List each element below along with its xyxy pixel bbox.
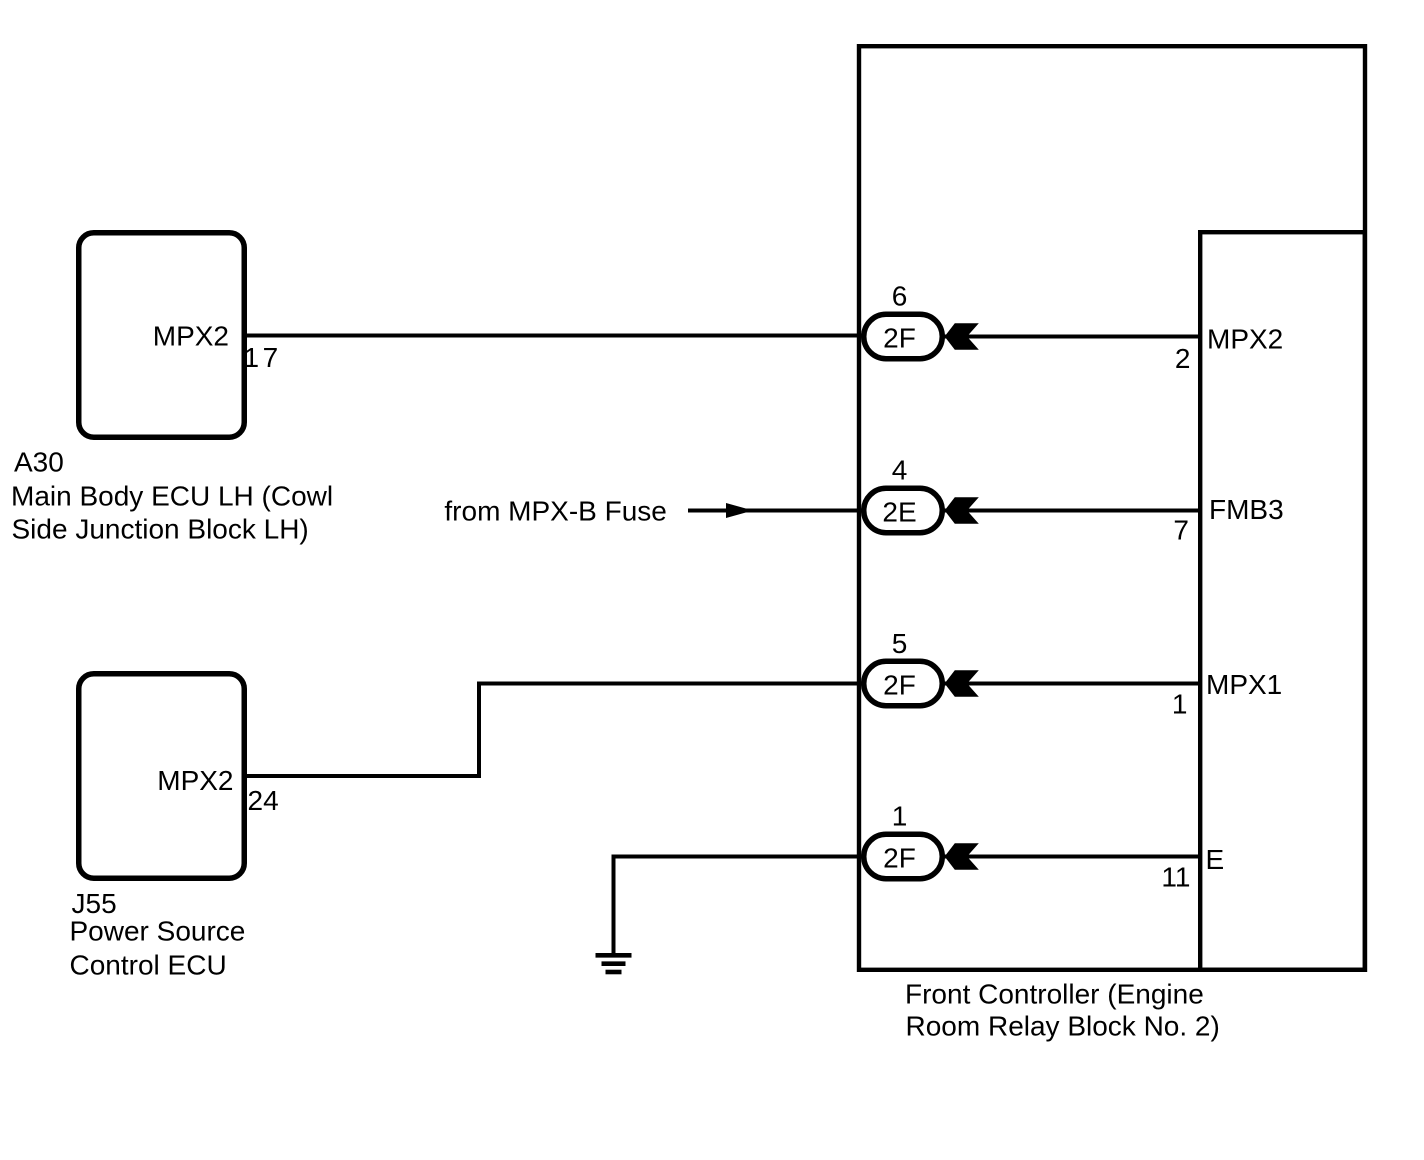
svg-text:Room Relay Block No. 2): Room Relay Block No. 2): [906, 1011, 1220, 1042]
svg-text:17: 17: [244, 342, 282, 373]
svg-text:FMB3: FMB3: [1209, 494, 1284, 525]
svg-text:MPX2: MPX2: [1207, 324, 1283, 355]
svg-text:4: 4: [892, 455, 908, 486]
svg-text:MPX2: MPX2: [157, 765, 233, 796]
svg-text:2: 2: [1175, 343, 1191, 374]
svg-text:Power Source: Power Source: [70, 916, 246, 947]
svg-text:Main Body ECU LH (Cowl: Main Body ECU LH (Cowl: [11, 480, 333, 511]
svg-text:2F: 2F: [883, 323, 916, 354]
svg-text:6: 6: [892, 281, 908, 312]
svg-text:Side Junction Block LH): Side Junction Block LH): [12, 514, 309, 545]
svg-text:from MPX-B Fuse: from MPX-B Fuse: [444, 496, 666, 527]
svg-text:2F: 2F: [883, 670, 916, 701]
svg-text:5: 5: [892, 628, 908, 659]
svg-text:7: 7: [1173, 515, 1189, 546]
svg-text:E: E: [1206, 844, 1225, 875]
svg-text:Front Controller (Engine: Front Controller (Engine: [905, 979, 1204, 1010]
svg-text:2F: 2F: [883, 843, 916, 874]
svg-text:Control ECU: Control ECU: [70, 949, 227, 980]
svg-text:24: 24: [248, 785, 279, 816]
svg-text:A30: A30: [14, 446, 64, 477]
svg-text:1: 1: [892, 801, 908, 832]
svg-text:11: 11: [1161, 862, 1190, 893]
svg-text:2E: 2E: [882, 496, 916, 527]
svg-text:J55: J55: [72, 888, 117, 919]
svg-text:MPX1: MPX1: [1206, 669, 1282, 700]
svg-text:1: 1: [1172, 689, 1188, 720]
svg-text:MPX2: MPX2: [153, 320, 229, 351]
